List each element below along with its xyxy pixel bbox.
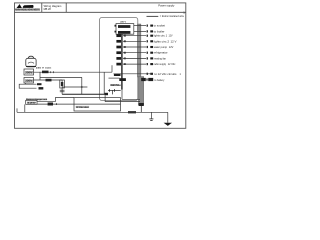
loom stub <box>140 106 142 112</box>
cable entry bracket <box>19 83 36 88</box>
svg-text:to boiler: to boiler <box>154 29 165 33</box>
bus right ticks rows 3-8 <box>124 35 126 65</box>
bus fuse blobs rows 3-8 <box>116 34 121 65</box>
riser C-D <box>81 77 83 94</box>
svg-text:230 V inlet: 230 V inlet <box>36 67 52 70</box>
row A left connector blob <box>114 74 121 76</box>
row 4 wire <box>123 40 146 42</box>
svg-text:to 12 Vdc circuits: to 12 Vdc circuits <box>154 73 177 76</box>
bracket connector lower <box>39 87 44 89</box>
junction dot <box>81 86 83 88</box>
connector J2 <box>147 30 148 32</box>
terminal blob row 1 <box>118 25 130 28</box>
connector pair under bus <box>108 89 121 94</box>
connector J1 <box>147 25 148 27</box>
charger drop <box>24 104 26 112</box>
row 1 wire <box>134 25 146 27</box>
bracket connector upper <box>37 83 42 85</box>
svg-text:1: 1 <box>183 11 185 15</box>
svg-text:Power supply: Power supply <box>158 4 175 8</box>
charger box <box>26 100 37 104</box>
wire A 230V to panel <box>34 71 113 73</box>
svg-text:230 V: 230 V <box>120 22 126 24</box>
battery feed wire <box>109 77 120 79</box>
row B fuse block <box>141 78 165 82</box>
fuse bottom connector marks <box>60 90 65 92</box>
legend sample line <box>147 15 159 17</box>
fuse F5 <box>116 51 121 54</box>
fuse F7 <box>116 63 121 66</box>
border frame <box>15 3 186 128</box>
ground wire main <box>17 111 168 113</box>
fuse F6 <box>116 57 121 60</box>
svg-text:12 Vdc: 12 Vdc <box>168 62 176 66</box>
connector J9 <box>147 73 148 75</box>
distribution panel outline <box>100 17 138 100</box>
box left nubs <box>115 25 117 27</box>
row 7 wire <box>123 57 146 59</box>
svg-text:water pump: water pump <box>154 45 168 49</box>
title band bottom line <box>15 11 186 13</box>
drop from wire E <box>104 95 106 101</box>
svg-text:radio supply: radio supply <box>154 62 167 66</box>
bus tail wire <box>121 90 123 100</box>
230V inlet plug icon <box>26 56 36 67</box>
connector on lower wire <box>48 103 53 106</box>
charger wire upper <box>37 97 74 101</box>
row B bus connector blob <box>119 78 126 81</box>
connector on wire B <box>46 79 52 82</box>
wire C <box>40 76 82 78</box>
tick after connector <box>55 103 57 105</box>
row 6 wire <box>123 52 146 54</box>
loom end cap <box>139 103 144 106</box>
terminal blob row 2 <box>118 31 130 34</box>
RCD box 2 <box>24 78 34 84</box>
battery compartment box <box>74 98 121 111</box>
charger wire lower <box>37 103 74 105</box>
connector J8 <box>147 63 148 65</box>
wire E end connector <box>105 93 108 95</box>
ground symbol 1 <box>149 119 153 121</box>
compartment divider <box>74 103 121 105</box>
connector J4 <box>147 40 148 42</box>
bus bottom wire pair <box>122 98 140 100</box>
fuse F3 <box>116 40 121 43</box>
fuse F4 <box>116 46 121 49</box>
row 5 wire <box>123 46 146 48</box>
title cell divider 2 <box>65 3 67 12</box>
svg-text:heating fan: heating fan <box>154 56 167 60</box>
cable loom lower <box>138 77 143 106</box>
connector J7 <box>147 57 148 59</box>
row plug connectors <box>147 25 153 75</box>
connector J6 <box>147 52 148 54</box>
fuse F2 <box>116 34 121 37</box>
wire A extra ticks <box>51 71 54 73</box>
svg-text:12 V: 12 V <box>171 39 177 43</box>
RCD box 1 <box>24 69 34 75</box>
wire D <box>62 86 87 88</box>
ground drop 2 <box>167 112 169 123</box>
svg-text:to socket: to socket <box>154 24 166 28</box>
12V bus bar <box>121 34 122 89</box>
ground symbol 2 <box>164 123 172 126</box>
row A to 12V loads <box>114 73 182 76</box>
logo emblem <box>17 4 34 8</box>
density overlays for tiny dark text rows <box>15 9 119 108</box>
row 3 wire <box>123 35 146 37</box>
svg-text:MB 28: MB 28 <box>44 8 52 11</box>
svg-text:12V: 12V <box>169 45 174 49</box>
wire B from RCD2 <box>34 79 63 81</box>
neutral riser <box>103 72 105 94</box>
branch rows <box>123 26 146 65</box>
chassis tick <box>16 108 18 112</box>
connector J3 <box>147 35 148 37</box>
row 8 wire <box>123 63 146 65</box>
stub bus to wire A <box>111 65 113 72</box>
row 2 wire <box>134 30 146 32</box>
vertical link A-B <box>39 72 41 80</box>
cable loom upper <box>137 24 141 77</box>
svg-text:refrigerator: refrigerator <box>154 51 168 55</box>
svg-text:lights circ 1: lights circ 1 <box>154 34 168 38</box>
wire E <box>62 93 105 95</box>
svg-text:12V: 12V <box>169 34 173 38</box>
svg-text:lights circ 2: lights circ 2 <box>154 39 170 43</box>
ground drop 1 <box>150 112 152 119</box>
svg-text:= Extra insulated wire: = Extra insulated wire <box>160 15 185 18</box>
mains input terminal box <box>116 24 134 35</box>
connector on wire A <box>42 71 49 74</box>
fuse F1 <box>60 80 65 94</box>
row labels <box>154 24 177 67</box>
connector marks on ground wire <box>128 111 136 113</box>
title cell divider 1 <box>41 3 43 12</box>
svg-text:to battery: to battery <box>154 79 165 82</box>
connector J5 <box>147 46 148 48</box>
